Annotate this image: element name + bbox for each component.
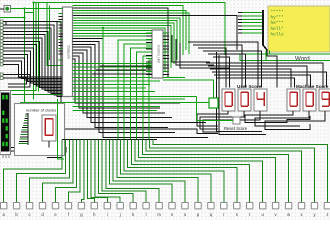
pin IN11 [0,56,3,59]
button r [221,203,227,218]
pin IN8 [0,46,3,49]
wire in5 [3,38,63,89]
wire u1 out d [73,96,197,98]
label User Score [237,84,262,89]
wire u2 lpin13 [146,74,152,76]
counter box [15,104,65,156]
wire bus y15 [73,16,238,51]
wire in1 [3,25,63,95]
wire key o [113,140,185,203]
wire vgreen 3 [38,3,40,92]
svg-text:Datapath: Datapath [67,46,71,59]
button t [247,203,253,218]
wire key c [30,140,70,203]
wire u2 rpin2 [163,38,169,40]
svg-text:z: z [326,212,328,217]
wire cu right v1 [172,35,210,62]
wire in10 [3,55,63,82]
pin INW1 [0,77,3,80]
wire bus y13 [73,13,190,54]
button f [65,203,71,218]
wire cu right v3 [180,43,230,68]
button k [130,203,136,218]
wire u2 rpin0 [163,32,169,34]
wire in0 [3,22,63,97]
label number of clocks [26,108,56,113]
clock CLK [0,6,11,13]
wire key g [81,140,84,203]
wire u2 lpin1 [146,35,152,37]
wire clock out [11,9,25,103]
wire u1 rg2 [73,70,147,72]
wire in9 [3,51,63,83]
pin IN10 [0,53,3,56]
display USER1 [238,89,251,111]
wire bus y5 [73,6,184,56]
wire key n [109,140,172,203]
wire u1 blk0 [73,39,209,138]
label Reset Score [224,126,248,131]
wire key b [17,140,66,203]
button w [285,203,291,218]
button n [169,203,175,218]
pin IN6 [0,40,3,43]
wire u1 lpin12 [59,47,63,49]
wire u1 lpin0 [59,13,63,15]
wire u1 lpin1 [59,15,63,17]
wire bus y23 [73,23,175,64]
wire u2 rpin8 [163,58,169,60]
button h [91,203,97,218]
register block U1 Datapath [63,7,73,97]
wire in6 [3,41,63,87]
wire under rom b [250,60,330,62]
wire u1 blk3 [73,47,207,122]
wire counter green [58,99,65,159]
wire key h [88,140,95,203]
wire u1 lpin11 [59,44,63,46]
wire u1 rg6 [73,84,151,86]
wire u2 lpin7 [146,54,152,56]
wire u1 out f [73,98,186,100]
wire in4 [3,35,63,91]
wire mscore feed2 [210,69,291,88]
display MACH1 [303,89,316,111]
svg-text:hell*: hell* [271,27,285,32]
wire key s [128,140,237,203]
wire in7 [3,45,63,86]
button p [195,203,201,218]
wire u2 lpin4 [146,45,152,47]
wire mscore feed4 [214,75,311,88]
display MACH2 [319,89,330,111]
button Reset Score [233,117,240,124]
wire key u [135,140,263,203]
wire u1 blk1 [73,41,176,132]
svg-text:User Score: User Score [237,84,262,89]
button x [298,203,304,218]
wire mscore feed3 [212,72,327,88]
wire rom bus greens [242,13,262,33]
svg-text:Machine Score: Machine Score [296,84,329,89]
wire u2 lpin6 [146,51,152,53]
splitter rom spine [263,10,267,50]
wire cu right v2 [176,39,214,65]
svg-text:Control_Unit: Control_Unit [157,45,161,63]
wire tty loop b [11,151,63,158]
pin IN9 [0,50,3,53]
wire cu feed g0 [118,40,152,140]
wire key r [124,140,224,203]
button c [26,203,32,218]
wire u2 lpin11 [146,67,152,69]
pin INW0 [0,73,3,76]
button a [1,203,7,218]
wire u1 lpin13 [59,50,63,52]
wire cu feed b1 [100,65,152,67]
label Word [295,56,310,63]
wire uscore feed0 [188,42,258,88]
wire u1 lpin14 [59,53,63,55]
wire probe up [163,80,214,98]
wire in2 [3,28,63,93]
wire u1 out e [20,102,209,104]
pin IN13 [0,63,3,66]
wire u1 rg1 [73,66,153,68]
wire key i [91,140,107,203]
button d [39,203,45,218]
wire bus y30 [73,31,163,77]
wire key x [146,140,302,203]
wire u2 rpin13 [163,74,169,76]
wire cu feed g1 [124,44,152,140]
svg-text:c: c [29,212,31,217]
wire clock to u1 [25,8,63,10]
wire u2 rpin6 [163,51,169,53]
wire bus y33 [73,33,153,35]
wire key e [56,140,77,203]
wire cu feed b3 [92,73,152,75]
pin IN12 [0,60,3,63]
wire clkcount stub [48,141,50,148]
wire u2 rpin10 [163,64,169,66]
pin IN3 [0,30,3,33]
wire mscore feed0 [206,63,323,88]
wire uscore feed1 [193,45,242,88]
splitter clocks [18,113,28,145]
wire uscore feed3 [203,51,262,88]
button b [13,203,19,218]
pin IN0 [0,20,3,23]
junction a [23,7,25,9]
wire u2 lpin2 [146,38,152,40]
svg-text:hello: hello [271,32,285,37]
svg-text:s: s [236,212,238,217]
wire vgreen 1 [33,3,35,100]
svg-text:m: m [157,212,161,217]
wire bus y2 [34,3,226,56]
wire mscore down2 [265,111,325,130]
svg-text:Word: Word [295,56,310,63]
junction b [23,16,25,18]
wire bus y28 [73,28,166,72]
ROM word memory [268,6,330,52]
wire bus y36 [73,35,153,37]
wire key a [4,140,62,203]
wire ledge b1 [6,22,218,134]
button i [104,203,110,218]
wire u2 rpin1 [163,35,169,37]
wire vgreen 2 [11,3,37,91]
svg-text:Reset Score: Reset Score [224,126,248,131]
wire in8 [3,48,63,85]
wire u2 lpin9 [146,61,152,63]
wire key f [69,140,81,203]
wire u1 rg4 [73,77,186,79]
wire u2 rpin9 [163,61,169,63]
wire inw1 [3,78,27,84]
wire u1 rg3 [73,73,151,75]
wire u1 rg8 [73,91,156,93]
wire u1 rg0 [73,63,153,65]
wire counter frame green [12,94,62,96]
wire u1 lpin10 [59,42,63,44]
display CLKCOUNT [42,115,56,141]
wire mid g1 [73,106,161,108]
wire under rom a [240,53,330,55]
wire u2 lpin3 [146,42,152,44]
wire inw0 [3,75,30,88]
junction c [32,1,34,3]
wire reset [197,97,234,121]
wire uscore feed2 [198,48,226,88]
wire mscore down1 [255,111,309,126]
wire in13 [3,64,63,77]
wire u2 rpin5 [163,48,169,50]
wire u2 rpin3 [163,42,169,44]
wire u1 lpin3 [59,21,63,23]
wire mscore feed5 [216,78,295,88]
wire under rom d [269,51,271,55]
wire key v [139,140,276,203]
splitter rom pins [238,13,242,33]
wire uscore feed5 [213,57,230,88]
button q [208,203,214,218]
wire u1 lpin6 [59,30,63,32]
wire key j [95,140,120,203]
wire u1 blk5 [73,53,166,113]
wire mscore feed bracket [267,50,277,88]
wire key y [150,140,315,203]
wire cu feed b2 [96,69,152,71]
wire in11 [3,58,63,80]
wire cu feed g5 [149,60,152,140]
wire key t [131,140,249,203]
wire u1 lpin2 [59,18,63,20]
wire u1 rg5 [73,80,161,82]
button z [324,203,330,218]
wire bus y8 [73,8,169,78]
wire rail v2 [219,55,266,135]
control unit U2 [152,30,163,78]
svg-text:i: i [107,212,108,217]
wire under rom e [240,54,250,61]
wire cu feed g2 [130,48,152,140]
wire bus y25 [73,26,172,69]
wire u2 rpin12 [163,70,169,72]
wire u1 lpin low1 [59,65,63,67]
wire cu feed g3 [137,52,152,140]
wire u2 lpin8 [146,58,152,60]
pin IN4 [0,33,3,36]
wire key p [117,140,198,203]
label Machine Score [296,84,329,89]
wire riser join [25,12,34,14]
wire tty stubs [3,155,9,159]
wire uscore down2 [203,111,260,132]
wire left edge green [0,17,25,19]
wire in3 [3,31,63,92]
pin IN5 [0,37,3,40]
pin IN7 [0,43,3,46]
wire mscore feed1 [208,66,307,88]
button y [311,203,317,218]
button l [143,203,149,218]
button v [272,203,278,218]
wire u1 blk6 [73,56,161,108]
svg-text:j: j [119,212,121,217]
wire vgreen 5 [49,6,51,61]
wire under rom c [265,51,267,61]
wire u1 lpin7 [59,33,63,35]
wire key q [120,140,210,203]
wire u2 lpin10 [146,64,152,66]
display MACH0 [287,89,300,111]
wire green riser mid [102,27,104,64]
wire u1 blk2 [73,44,169,127]
svg-text:he***: he*** [271,21,285,26]
wire u1 rg7 [73,87,147,89]
pin IN1 [0,23,3,26]
wire rail v1 [217,52,263,132]
wire bus y10 [73,11,187,51]
wire mid g2 [73,110,158,112]
wire bus y20 [73,21,178,61]
ROM contents text [271,10,285,37]
display USER0 [222,89,235,111]
wire key k [99,140,134,203]
wire in12 [3,61,63,78]
button m [156,203,162,218]
wire u1 lpin9 [59,39,63,41]
wire u1 lpin4 [59,24,63,26]
svg-text:hy***: hy*** [271,16,285,21]
wire keyboard spine [62,139,157,141]
wire u1 lpin8 [59,36,63,38]
wire u2 rpin4 [163,45,169,47]
button u [260,203,266,218]
svg-text:number of clocks: number of clocks [26,108,56,113]
button g [78,203,84,218]
wire u2 rpin11 [163,67,169,69]
wire uscore down0 [197,111,228,126]
wire u2 lpin5 [146,48,152,50]
wire mscore down0 [245,111,310,123]
svg-text:*****: ***** [271,10,285,15]
wire u1 blk7 [73,59,181,103]
button o [182,203,188,218]
button j [117,203,123,218]
wire key l [102,140,146,203]
button e [52,203,58,218]
wire bus y18 [73,18,181,56]
wire u1 lpin low0 [59,59,63,61]
wire tty loop a [11,148,67,153]
wire vgreen 4 [47,3,59,66]
TTY display [0,91,11,155]
wire u2 lpin12 [146,70,152,72]
wire cu feed g4 [143,56,152,140]
wire u2 lpin0 [146,32,152,34]
wire key d [43,140,74,203]
svg-text:l: l [146,212,147,217]
display USER2 [254,89,267,111]
wire u2 rpin7 [163,54,169,56]
probe LED [209,98,218,108]
wire uscore down1 [200,111,244,129]
wire key z [153,140,327,203]
wire key w [142,140,288,203]
pin IN2 [0,27,3,30]
button s [234,203,240,218]
wire key m [106,140,159,203]
wire uscore feed4 [208,54,246,88]
wire u1 blk4 [73,50,173,118]
wire u1 lpin5 [59,27,63,29]
